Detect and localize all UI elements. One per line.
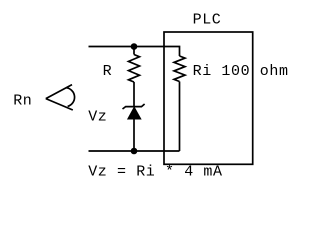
node junction top [131,43,138,50]
svg-text:Vz: Vz [88,108,107,125]
wire R to zener [133,82,135,107]
wire zener to bottom rail [133,119,135,151]
resistor Ri [174,56,185,82]
zener diode Vz anode triangle [128,107,141,119]
zener diode Vz cathode bar [123,104,145,109]
node junction bottom [131,148,138,155]
resistor R [129,55,140,83]
svg-text:PLC: PLC [193,12,222,29]
wire R branch top [133,47,135,55]
wire Ri to bottom rail [179,82,181,152]
PLC enclosure box [164,32,253,164]
wire bottom rail [89,150,180,152]
svg-text:Ri 100 ohm: Ri 100 ohm [193,63,289,80]
sensor Rn angle upper line [46,85,72,99]
svg-text:Rn: Rn [13,92,32,109]
svg-text:R: R [103,63,113,80]
sensor Rn angle lower line [46,99,73,110]
sensor Rn arc [66,88,75,107]
svg-text:Vz = Ri * 4 mA: Vz = Ri * 4 mA [88,164,222,181]
wire top rail [89,47,180,57]
